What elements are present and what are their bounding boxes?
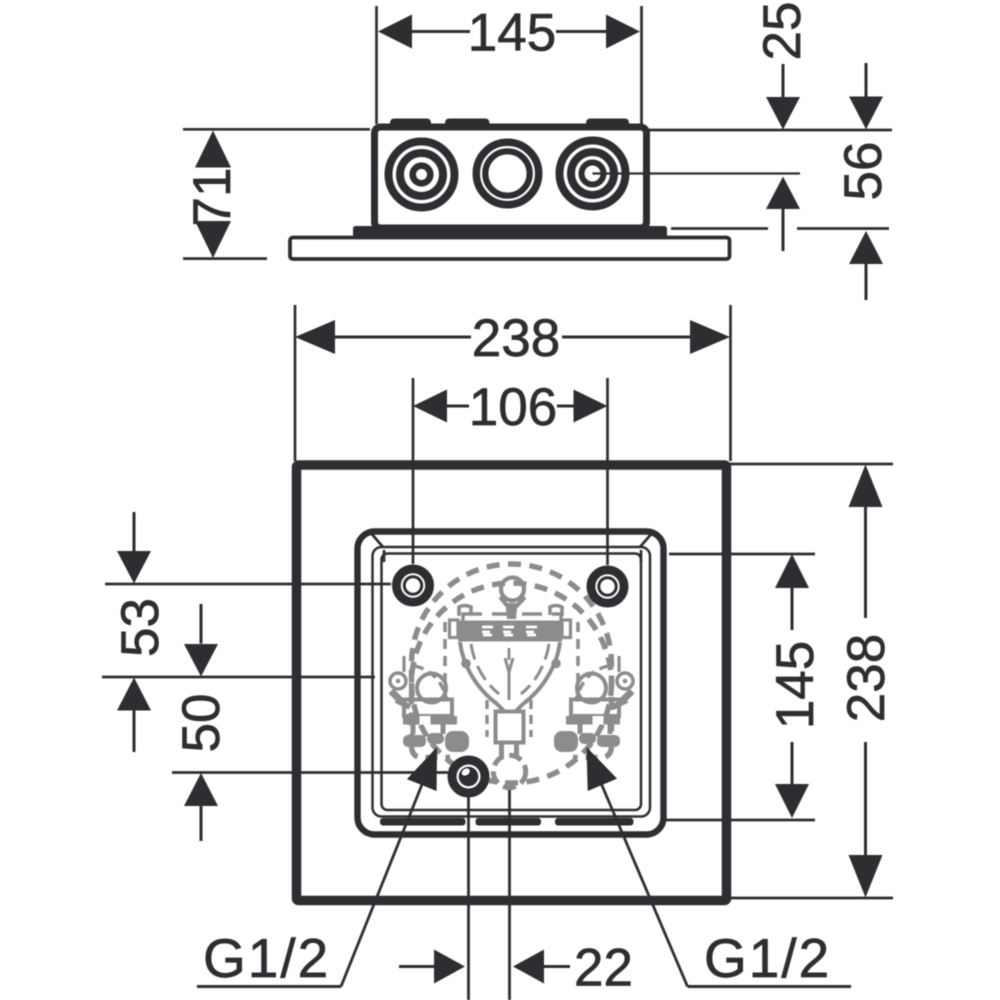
- svg-text:53: 53: [111, 598, 170, 657]
- dim 238R line: [864, 507, 867, 618]
- svg-text:50: 50: [172, 694, 231, 753]
- bell outline right: [515, 642, 560, 712]
- right bracket ring: [617, 673, 633, 689]
- dim 56 arrow down: [865, 63, 868, 97]
- screw top-left: [396, 569, 429, 602]
- ext 106 left: [412, 378, 415, 564]
- left bracket nut circle: [417, 674, 446, 703]
- corner chamfer top-left: [370, 532, 383, 547]
- svg-text:238: 238: [837, 634, 896, 722]
- ext 238 right: [729, 305, 732, 461]
- dashed vertical right of pipe: [529, 700, 532, 737]
- svg-text:106: 106: [469, 378, 557, 437]
- leader 22 outlet line: [508, 790, 511, 1000]
- leader 22 screw line: [467, 795, 470, 1000]
- svg-text:G1/2: G1/2: [203, 927, 330, 989]
- top pin circle: [501, 578, 524, 601]
- base plate: [290, 238, 730, 260]
- tab 3: [586, 119, 629, 129]
- pipe connector right: [514, 744, 519, 757]
- right bracket bar B notch: [593, 716, 604, 725]
- flange bar: [353, 226, 667, 238]
- rail top segmented edge: [463, 614, 561, 621]
- right bracket foot 2: [579, 733, 596, 744]
- right bracket frame A: [571, 700, 619, 717]
- leader G1/2 right arrow: [587, 747, 618, 791]
- right bracket nut circle: [577, 674, 606, 703]
- outer square: [297, 465, 727, 901]
- rail bar white marks: [482, 627, 537, 635]
- right bracket diagonal 1: [620, 691, 632, 703]
- center arrow mark: [505, 658, 513, 700]
- dim 22 arrow left-pointing: [513, 950, 544, 984]
- right bracket handle arc: [576, 666, 608, 700]
- dim 145 arrow left: [378, 15, 412, 49]
- arch bottom curl left: [412, 747, 451, 758]
- dim 145 arrow right: [606, 15, 640, 49]
- inner rounded square (body): [358, 532, 664, 835]
- inner offset line 2: [382, 554, 642, 811]
- dim 238 arrow left: [295, 320, 335, 354]
- dim 71 arrow down: [195, 221, 231, 258]
- center line of ports: [593, 172, 801, 174]
- leader G1/2 left line: [341, 777, 425, 987]
- dashed arch outline: [412, 564, 612, 747]
- svg-text:238: 238: [472, 309, 560, 368]
- tab 2: [445, 119, 490, 129]
- left bracket bar B: [403, 716, 457, 725]
- leader G1/2 right underline: [688, 985, 852, 988]
- left bracket top tick: [402, 656, 405, 672]
- right port circle: [560, 141, 626, 207]
- dim 53 arrow down: [133, 512, 136, 551]
- dim 238R arrow down: [849, 855, 883, 898]
- dim 71 arrow up: [195, 131, 231, 168]
- right bracket foot 3: [554, 731, 578, 752]
- dashed vertical right of bell: [576, 622, 580, 702]
- pipe connector left: [499, 744, 504, 757]
- pin V right: [515, 597, 525, 608]
- bell shoulder dot left: [461, 659, 471, 669]
- rail end tab left: [450, 620, 459, 638]
- svg-text:25: 25: [753, 2, 812, 61]
- tab 1: [390, 119, 431, 129]
- left bracket ring: [390, 673, 406, 689]
- left bracket foot 3: [445, 731, 469, 752]
- outlet pipe: [496, 712, 524, 743]
- inner line end stub left: [383, 550, 386, 562]
- ext line 71 bottom: [183, 257, 267, 260]
- right bracket ring dot: [623, 679, 628, 684]
- ext 238 left: [294, 305, 297, 461]
- left bracket post C2: [441, 725, 446, 735]
- dim 25 arrow down: [782, 64, 785, 99]
- dim 145R arrow down: [775, 784, 809, 818]
- rail end tab right: [562, 620, 571, 638]
- rail clip left: [459, 606, 471, 617]
- ext line plate level right: [671, 227, 768, 230]
- ext 53 top line: [105, 583, 391, 586]
- svg-text:22: 22: [574, 939, 633, 998]
- svg-text:145: 145: [766, 641, 825, 729]
- dim 25 arrow up: [766, 177, 800, 210]
- dim 145R line: [791, 588, 794, 630]
- inner offset line: [373, 547, 651, 817]
- dim 22 arrow right-pointing: [399, 965, 434, 968]
- dim 56 arrow up: [849, 231, 883, 264]
- ext 238R bottom: [731, 897, 893, 900]
- svg-text:56: 56: [834, 142, 893, 201]
- right bracket post C2: [608, 725, 613, 735]
- dim 106 line: [447, 405, 469, 408]
- screw top-right: [591, 570, 624, 603]
- bell inner line left: [471, 644, 499, 694]
- inner line end stub right: [640, 550, 643, 562]
- outlet circle bottom: [493, 755, 525, 787]
- screw bottom: [452, 760, 485, 793]
- center line: [508, 648, 511, 660]
- left bracket foot 1: [403, 735, 426, 747]
- ext 145R top: [669, 553, 815, 556]
- bottom slotted bar: [380, 818, 466, 826]
- ext 106 right: [606, 378, 609, 565]
- middle port circle: [476, 142, 538, 204]
- dashed vertical left of pipe: [485, 700, 488, 737]
- rail clip right: [550, 606, 562, 617]
- ext 238R top: [730, 463, 893, 466]
- right bracket top tick: [617, 656, 620, 672]
- right bracket foot 1: [597, 735, 620, 747]
- dim 106 arrow right: [574, 390, 608, 423]
- left bracket bar B notch: [420, 716, 431, 725]
- ext 50 bottom line: [172, 771, 448, 774]
- dim 238 arrow right: [690, 320, 730, 354]
- ext line 145 right: [640, 6, 643, 124]
- left bracket foot 2: [427, 733, 444, 744]
- left bracket diagonal 1: [391, 691, 403, 703]
- box body: [375, 127, 647, 228]
- dim 106 arrow left: [413, 390, 447, 423]
- bell inner line right: [521, 644, 549, 694]
- dim 53 arrow up: [117, 678, 151, 711]
- big dashed circle: [412, 583, 612, 783]
- arch bottom curl right: [573, 747, 612, 758]
- left bracket post C1: [411, 725, 416, 735]
- dim 50 arrow up: [184, 773, 218, 806]
- bell shoulder dot right: [551, 659, 561, 669]
- pin stem: [506, 603, 518, 619]
- svg-text:G1/2: G1/2: [704, 927, 831, 989]
- rail bar filled: [458, 621, 562, 642]
- dim 238R arrow up: [849, 465, 883, 508]
- svg-text:71: 71: [183, 168, 242, 227]
- leader G1/2 right line: [598, 776, 688, 987]
- ext 145R bottom: [661, 819, 815, 822]
- dim 145R arrow up: [775, 554, 809, 588]
- left bracket frame A: [404, 700, 452, 717]
- dim 145 line: [412, 30, 470, 33]
- bell outline left: [460, 642, 505, 712]
- left bracket handle arc: [415, 666, 447, 700]
- left bracket diagonal 2: [396, 700, 410, 707]
- left port circle: [389, 142, 455, 208]
- pin V left: [500, 597, 509, 608]
- dim 50 arrow down: [200, 604, 203, 644]
- right bracket diagonal 2: [613, 700, 627, 707]
- right bracket post C1: [578, 725, 583, 735]
- ext 53/50 middle line: [102, 676, 375, 679]
- dashed vertical left of bell: [443, 622, 447, 702]
- dim 238 line: [335, 336, 471, 339]
- ext line box top right: [645, 129, 892, 132]
- ext line 145 left: [375, 6, 378, 124]
- ext line 71 top: [183, 128, 370, 131]
- leader G1/2 left underline: [197, 985, 341, 988]
- left bracket ring dot: [396, 679, 401, 684]
- leader G1/2 left arrow: [407, 747, 437, 791]
- corner chamfer top-right: [640, 532, 653, 547]
- right bracket bar B: [566, 716, 620, 725]
- svg-text:145: 145: [468, 4, 556, 63]
